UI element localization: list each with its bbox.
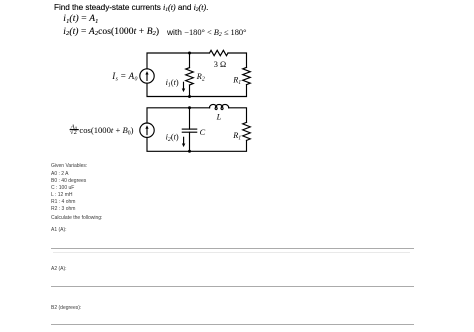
answer input rule 3	[51, 324, 414, 325]
wire: capacitor top lead	[189, 108, 191, 129]
resistor R1 (circuit 1 right branch)	[243, 67, 251, 84]
node: circuit 2 top junction	[188, 106, 191, 109]
svg-text:i2(t): i2(t)	[166, 133, 179, 144]
wire: circuit 2 top middle segment (node to inductor)	[190, 107, 210, 109]
node: circuit 1 top junction	[188, 52, 191, 55]
svg-text:R1: R1	[232, 131, 241, 142]
svg-text:3 Ω: 3 Ω	[214, 60, 226, 69]
resistor R1 (circuit 2 right branch)	[243, 122, 251, 140]
svg-text:R2: R2	[196, 72, 205, 83]
wire: R2 top lead	[189, 53, 191, 68]
wire: circuit 2 top-left segment	[147, 108, 190, 123]
wire: circuit 1 right-bottom segment	[190, 85, 247, 97]
svg-text:cos(1000t + B0): cos(1000t + B0)	[79, 125, 133, 137]
svg-text:L: L	[216, 113, 222, 122]
wire: R2 bottom lead	[189, 85, 191, 97]
equation i1(t) = A1	[63, 14, 98, 24]
resistor 3 Ohm (R series, top of circuit 1)	[210, 50, 229, 55]
answer input rule 2	[51, 286, 414, 287]
wire: circuit 1 top middle segment (node to 3-ohm resistor)	[190, 52, 210, 54]
problem statement	[54, 3, 208, 13]
wire: circuit 2 right-bottom segment	[190, 140, 247, 151]
equation i2(t) = A2 cos(1000t + B2)	[63, 27, 159, 37]
answer label B2 (degrees):	[51, 305, 81, 311]
capacitor C (circuit 2 middle branch)	[182, 129, 196, 132]
wire: capacitor bottom lead	[189, 132, 191, 151]
constraint: with -180 < B2 <= 180	[167, 27, 246, 38]
node: circuit 2 bottom junction	[188, 150, 191, 153]
current arrow i1(t)	[182, 82, 185, 92]
wire: circuit 1 top-right corner	[228, 53, 247, 67]
given variables block	[51, 163, 87, 169]
wire: circuit 2 bottom-left segment	[147, 137, 190, 151]
answer label A1 (A):	[51, 227, 67, 233]
answer label A2 (A):	[51, 266, 67, 272]
wire: circuit 1 bottom-left segment	[147, 83, 190, 96]
svg-text:R1: R1	[232, 75, 241, 86]
source label A0/sqrt(2) cos(1000t + B0)	[70, 123, 134, 136]
current source A0/sqrt2 cos(1000t+B0) (circuit 2)	[140, 123, 154, 137]
wire: circuit 1 top-left segment	[147, 53, 190, 69]
svg-text:i1(t): i1(t)	[166, 78, 179, 89]
wire: circuit 2 top-right corner	[229, 108, 247, 123]
resistor R2 (circuit 1 middle branch)	[186, 68, 194, 85]
node: circuit 1 bottom junction	[188, 95, 191, 98]
answer input rule 1	[51, 248, 414, 249]
svg-text:√2: √2	[70, 128, 77, 136]
inductor L (top of circuit 2)	[209, 104, 228, 109]
svg-text:C: C	[200, 128, 206, 137]
current source Is = A0 (circuit 1)	[140, 69, 154, 83]
svg-text:Is = A0: Is = A0	[111, 71, 137, 83]
current arrow i2(t)	[182, 137, 185, 147]
